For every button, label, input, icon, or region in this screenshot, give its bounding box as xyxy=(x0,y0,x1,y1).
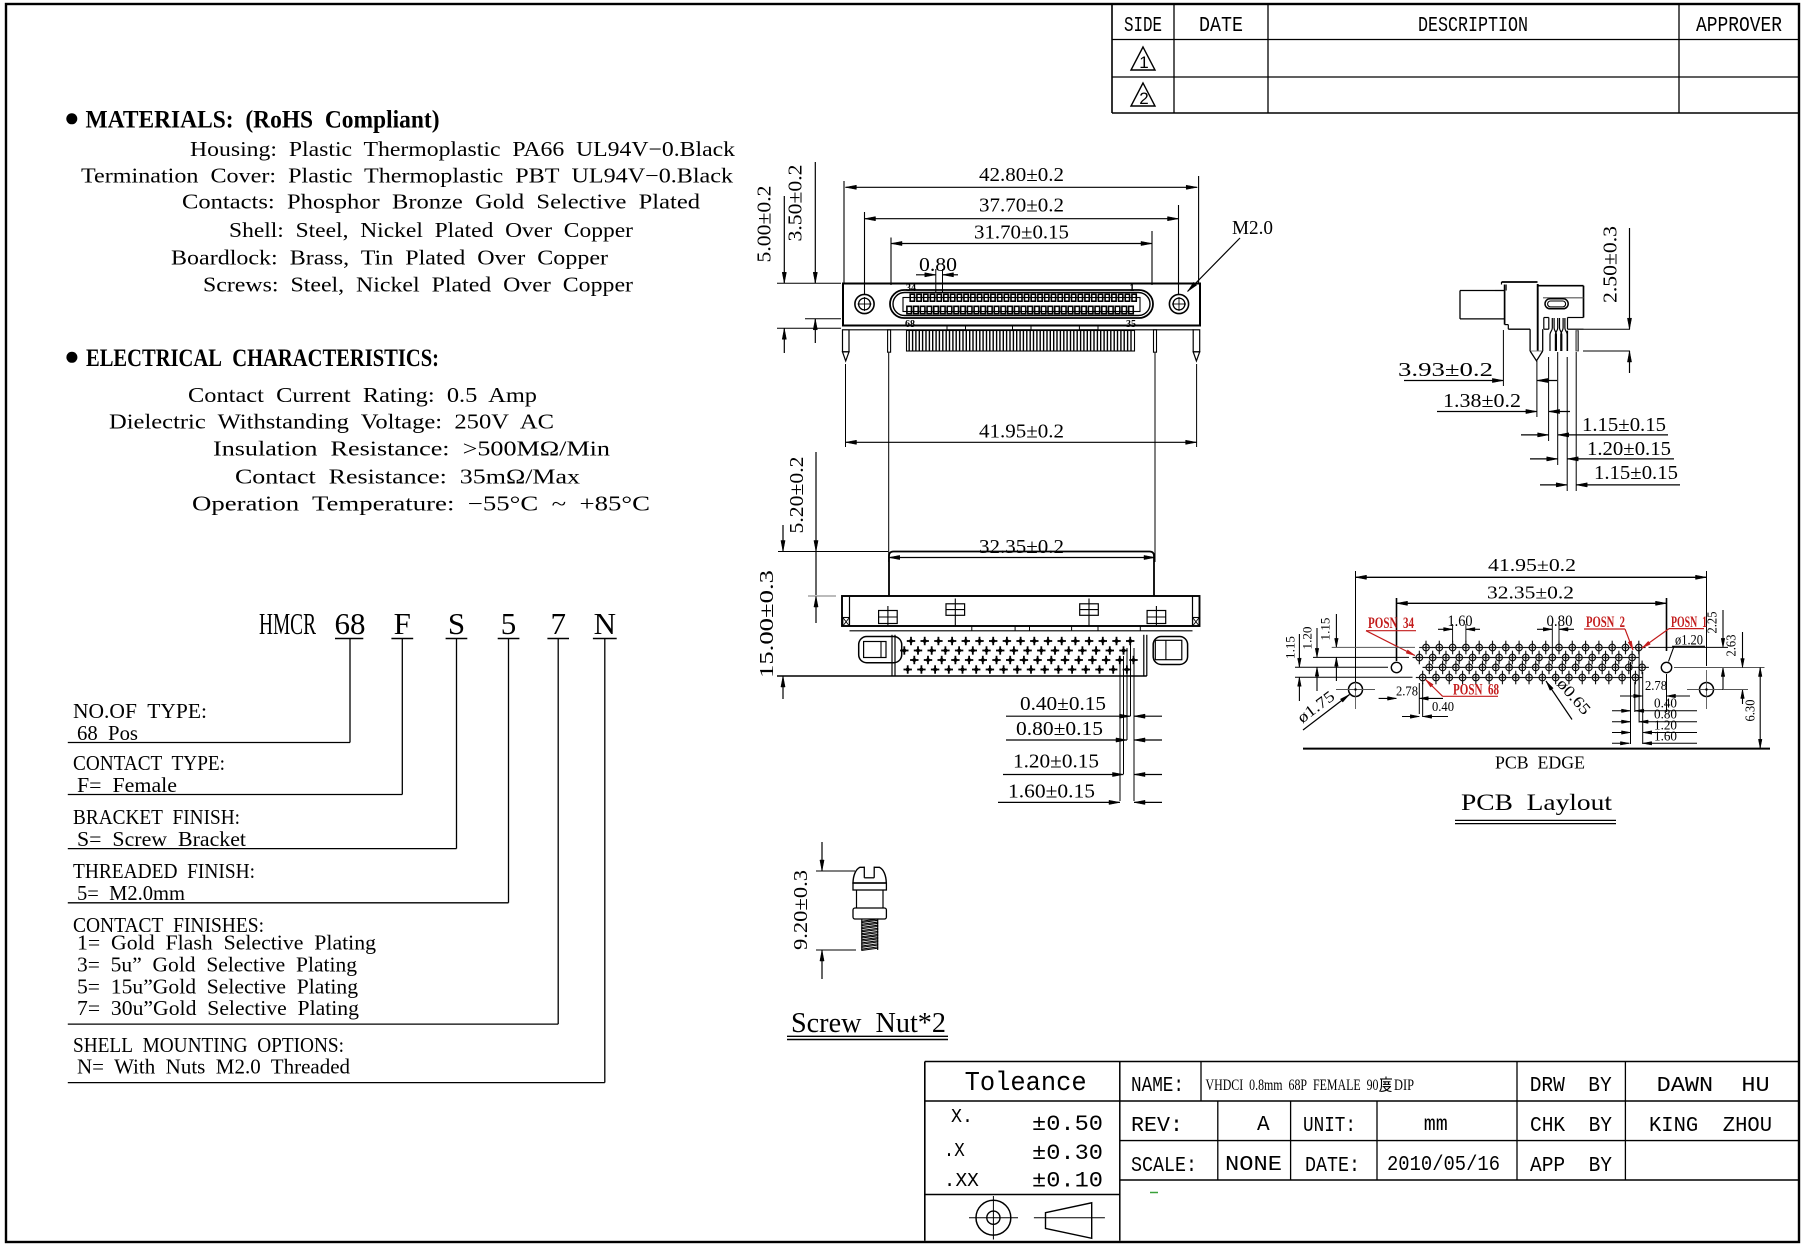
front view witness lines left xyxy=(777,282,841,284)
code 68 underline and leader xyxy=(335,638,363,640)
svg-text:7: 7 xyxy=(550,606,566,641)
svg-text:REV:: REV: xyxy=(1131,1115,1183,1138)
svg-text:1= Gold Flash Selective Pl: 1= Gold Flash Selective Plating xyxy=(77,931,377,955)
side view mating snout xyxy=(1495,290,1505,292)
svg-text:Screws: Steel, Nickel Plate: Screws: Steel, Nickel Plated Over Copper xyxy=(203,273,633,297)
svg-text:32.35±0.2: 32.35±0.2 xyxy=(979,536,1064,558)
svg-text:BRACKET FINISH:: BRACKET FINISH: xyxy=(73,805,240,829)
small green mark xyxy=(1150,1192,1158,1194)
side view under-body supports xyxy=(1544,317,1549,319)
svg-text:5= 15u”Gold Selective Plati: 5= 15u”Gold Selective Plating xyxy=(77,975,359,999)
middle view pin extension lines xyxy=(1119,660,1121,801)
revision triangle 2 xyxy=(1131,83,1155,106)
pcb edge line xyxy=(1303,748,1770,750)
svg-text:DIP: DIP xyxy=(1394,1077,1414,1094)
svg-text:2010/05/16: 2010/05/16 xyxy=(1387,1154,1500,1177)
screw nut drawing xyxy=(853,867,886,883)
svg-text:2.78: 2.78 xyxy=(1645,679,1667,694)
middle view pin field (68 pins) xyxy=(900,637,1138,674)
svg-text:68: 68 xyxy=(905,319,915,330)
front view contact pins row 1 (34 squares) xyxy=(910,294,1136,301)
svg-text:9.20±0.3: 9.20±0.3 xyxy=(790,870,812,950)
side view straight pin gray xyxy=(1576,331,1579,351)
svg-text:±0.30: ±0.30 xyxy=(1032,1141,1103,1166)
svg-text:CONTACT TYPE:: CONTACT TYPE: xyxy=(73,751,225,775)
svg-text:68: 68 xyxy=(335,606,366,641)
svg-text:2.50±0.3: 2.50±0.3 xyxy=(1600,226,1622,303)
svg-text:CHK BY: CHK BY xyxy=(1530,1115,1612,1138)
svg-text:Screw Nut*2: Screw Nut*2 xyxy=(791,1008,946,1039)
svg-text:HMCR: HMCR xyxy=(259,606,316,641)
svg-text:THREADED FINISH:: THREADED FINISH: xyxy=(73,859,255,883)
svg-text:.X: .X xyxy=(944,1140,966,1162)
hand-drawn CJK glyph du (degree) xyxy=(1380,1077,1393,1092)
svg-text:41.95±0.2: 41.95±0.2 xyxy=(1488,555,1576,575)
front view right screw hole xyxy=(1169,294,1188,313)
svg-text:Operation Temperature: −55°C: Operation Temperature: −55°C ~ +85°C xyxy=(192,492,650,516)
svg-text:1: 1 xyxy=(1130,283,1135,294)
svg-text:PCB EDGE: PCB EDGE xyxy=(1495,753,1585,773)
revision table xyxy=(1111,4,1113,113)
front view D-slot outer xyxy=(890,290,1153,318)
side view body xyxy=(1539,285,1584,287)
svg-text:3.93±0.2: 3.93±0.2 xyxy=(1398,359,1493,381)
svg-text:N= With Nuts M2.0 Threaded: N= With Nuts M2.0 Threaded xyxy=(77,1055,350,1079)
dimension 32.35±0.2 witness lines xyxy=(888,353,890,562)
code F underline and leader xyxy=(391,638,413,640)
svg-text:42.80±0.2: 42.80±0.2 xyxy=(979,164,1064,186)
svg-text:1.60: 1.60 xyxy=(1448,613,1473,630)
front view right thin pin xyxy=(1154,330,1157,352)
svg-text:NO.OF TYPE:: NO.OF TYPE: xyxy=(73,699,207,723)
svg-text:15.00±0.3: 15.00±0.3 xyxy=(756,570,778,678)
front view right boardlock pin xyxy=(1193,330,1200,352)
svg-text:KING ZHOU: KING ZHOU xyxy=(1649,1115,1772,1138)
svg-text:±0.50: ±0.50 xyxy=(1032,1112,1103,1137)
front view left screw hole xyxy=(855,294,874,313)
svg-text:0.40±0.15: 0.40±0.15 xyxy=(1020,693,1106,715)
svg-text:MATERIALS: (RoHS Compliant): MATERIALS: (RoHS Compliant) xyxy=(86,107,440,134)
front view left thin pin xyxy=(888,330,891,352)
svg-text:DRW BY: DRW BY xyxy=(1530,1075,1612,1098)
svg-text:UNIT:: UNIT: xyxy=(1303,1115,1356,1138)
middle view pin block xyxy=(894,635,896,676)
svg-text:Insulation Resistance: >500M: Insulation Resistance: >500MΩ/Min xyxy=(213,437,611,461)
front view insert rectangle xyxy=(903,298,1140,312)
third angle projection symbol cone xyxy=(1046,1203,1092,1239)
svg-text:X.: X. xyxy=(951,1106,973,1128)
svg-text:APP BY: APP BY xyxy=(1530,1155,1612,1178)
svg-text:F: F xyxy=(394,606,411,641)
dimension 41.95±0.2 witness lines xyxy=(845,364,847,447)
svg-text:Contact Current Rating: 0.5: Contact Current Rating: 0.5 Amp xyxy=(188,383,537,407)
front view contact pins row 2 (34 squares) xyxy=(907,306,1133,313)
title block frame xyxy=(925,1061,1799,1063)
middle view bottom strip with tabs xyxy=(850,630,1193,632)
svg-text:SIDE: SIDE xyxy=(1124,15,1162,38)
middle view right X-box xyxy=(1193,618,1200,627)
pcb right hole 1.20 xyxy=(1661,662,1671,672)
middle view flange xyxy=(842,596,1200,626)
side view oval slot outer xyxy=(1545,299,1568,309)
svg-text:Shell: Steel, Nickel Plated: Shell: Steel, Nickel Plated Over Copper xyxy=(229,218,633,242)
svg-text:1.60: 1.60 xyxy=(1654,729,1677,744)
revision triangle 1 xyxy=(1131,47,1155,70)
side view boardlock pin with tip xyxy=(1529,329,1531,351)
svg-text:S= Screw Bracket: S= Screw Bracket xyxy=(77,827,246,851)
svg-text:Boardlock: Brass, Tin Plate: Boardlock: Brass, Tin Plated Over Copper xyxy=(171,246,608,270)
middle view left boss xyxy=(859,637,902,663)
svg-text:5= M2.0mm: 5= M2.0mm xyxy=(77,881,185,905)
svg-text:1.38±0.2: 1.38±0.2 xyxy=(1443,390,1521,412)
svg-text:6.30: 6.30 xyxy=(1744,700,1759,722)
side view wavy contact legs xyxy=(1550,318,1552,351)
svg-text:F= Female: F= Female xyxy=(77,773,177,797)
materials section xyxy=(66,113,77,124)
svg-text:Toleance: Toleance xyxy=(965,1069,1087,1099)
code N underline and leader xyxy=(593,638,617,640)
svg-text:68 Pos: 68 Pos xyxy=(77,721,138,745)
side view bracket plate xyxy=(1502,281,1538,283)
middle view right boss xyxy=(1153,637,1187,665)
svg-text:DATE:: DATE: xyxy=(1305,1155,1360,1178)
side view dimension witness verticals xyxy=(1502,330,1504,386)
svg-text:5.00±0.2: 5.00±0.2 xyxy=(754,186,776,263)
front view hatched pin block xyxy=(907,331,1135,352)
svg-text:1: 1 xyxy=(1139,53,1148,72)
svg-text:3.50±0.2: 3.50±0.2 xyxy=(785,165,807,242)
side view straight pin black xyxy=(1566,331,1568,351)
svg-text:7= 30u”Gold Selective Plati: 7= 30u”Gold Selective Plating xyxy=(77,996,360,1020)
pcb left mount hole 1.75 xyxy=(1349,683,1363,697)
pcb right mount hole 1.75 xyxy=(1700,683,1714,697)
svg-text:DESCRIPTION: DESCRIPTION xyxy=(1418,15,1528,38)
svg-text:mm: mm xyxy=(1424,1114,1448,1137)
svg-text:1.20±0.15: 1.20±0.15 xyxy=(1587,438,1671,460)
screw nut threads xyxy=(862,919,878,950)
svg-text:NAME:: NAME: xyxy=(1131,1075,1184,1098)
svg-text:±0.10: ±0.10 xyxy=(1032,1169,1103,1194)
svg-text:.XX: .XX xyxy=(944,1170,980,1192)
svg-text:0.40: 0.40 xyxy=(1432,700,1454,715)
svg-text:N: N xyxy=(594,606,616,641)
front view D-slot inner xyxy=(893,293,1150,316)
code S underline and leader xyxy=(446,638,468,640)
svg-text:1.20±0.15: 1.20±0.15 xyxy=(1013,751,1099,773)
svg-text:A: A xyxy=(1257,1114,1270,1137)
svg-text:SCALE:: SCALE: xyxy=(1131,1155,1197,1178)
side view oval slot inner xyxy=(1548,301,1566,307)
svg-text:VHDCI 0.8mm 68P FEMALE 90: VHDCI 0.8mm 68P FEMALE 90 xyxy=(1206,1077,1379,1094)
pcb layout pin grid (68 holes) xyxy=(1413,641,1649,685)
svg-text:1.15±0.15: 1.15±0.15 xyxy=(1582,414,1666,436)
svg-text:1.20: 1.20 xyxy=(1300,627,1315,650)
svg-text:2.78: 2.78 xyxy=(1396,685,1418,700)
pcb right witness verticals xyxy=(1630,662,1632,744)
svg-text:1.60±0.15: 1.60±0.15 xyxy=(1008,781,1095,803)
svg-text:35: 35 xyxy=(1126,319,1136,330)
front view left boardlock pin xyxy=(843,330,850,352)
svg-text:Contacts: Phosphor Bronze G: Contacts: Phosphor Bronze Gold Selective… xyxy=(182,190,701,214)
front view connector body xyxy=(843,284,1200,326)
code 5 underline and leader xyxy=(498,638,520,640)
svg-text:3= 5u” Gold Selective Plat: 3= 5u” Gold Selective Plating xyxy=(77,953,358,977)
svg-text:5: 5 xyxy=(501,606,517,641)
third angle projection symbol circle xyxy=(976,1200,1011,1235)
electrical characteristics section xyxy=(66,352,77,363)
svg-text:1.15: 1.15 xyxy=(1318,618,1333,641)
svg-text:DAWN HU: DAWN HU xyxy=(1657,1075,1770,1098)
svg-text:0.80±0.15: 0.80±0.15 xyxy=(1016,718,1103,740)
svg-text:Housing: Plastic Thermoplast: Housing: Plastic Thermoplastic PA66 UL94… xyxy=(190,137,736,161)
svg-text:1.15±0.15: 1.15±0.15 xyxy=(1594,462,1678,484)
svg-text:Dielectric Withstanding Volt: Dielectric Withstanding Voltage: 250V AC xyxy=(109,410,554,434)
svg-text:2.25: 2.25 xyxy=(1706,612,1721,634)
svg-text:32.35±0.2: 32.35±0.2 xyxy=(1487,583,1574,603)
svg-text:S: S xyxy=(448,606,465,641)
svg-text:ELECTRICAL CHARACTERISTICS:: ELECTRICAL CHARACTERISTICS: xyxy=(86,345,439,372)
pcb row witness lines left xyxy=(1332,646,1415,648)
pcb left hole 1.20 xyxy=(1391,662,1401,672)
middle view hood xyxy=(889,552,1154,597)
svg-text:34: 34 xyxy=(906,283,916,294)
front view flange strip below body xyxy=(850,329,1194,331)
svg-text:5.20±0.2: 5.20±0.2 xyxy=(786,457,808,534)
svg-text:DATE: DATE xyxy=(1199,15,1243,38)
svg-text:PCB Laylout: PCB Laylout xyxy=(1461,790,1613,815)
svg-text:31.70±0.15: 31.70±0.15 xyxy=(974,222,1069,244)
svg-text:Termination Cover: Plastic: Termination Cover: Plastic Thermoplastic… xyxy=(81,163,734,187)
svg-text:M2.0: M2.0 xyxy=(1232,217,1273,239)
middle view boardlock screw symbols xyxy=(879,611,898,624)
svg-text:Contact Resistance: 35mΩ/Max: Contact Resistance: 35mΩ/Max xyxy=(235,465,581,489)
svg-text:0.80: 0.80 xyxy=(1547,613,1573,630)
svg-text:2: 2 xyxy=(1139,89,1148,108)
svg-text:SHELL MOUNTING OPTIONS:: SHELL MOUNTING OPTIONS: xyxy=(73,1033,344,1057)
svg-text:NONE: NONE xyxy=(1225,1154,1282,1177)
svg-text:1.15: 1.15 xyxy=(1283,636,1298,659)
svg-text:2.63: 2.63 xyxy=(1725,635,1740,657)
svg-text:POSN 34: POSN 34 xyxy=(1368,615,1414,632)
svg-text:37.70±0.2: 37.70±0.2 xyxy=(979,195,1064,217)
svg-text:APPROVER: APPROVER xyxy=(1696,15,1782,38)
middle view left X-box xyxy=(843,618,850,627)
svg-text:41.95±0.2: 41.95±0.2 xyxy=(979,421,1064,443)
code 7 underline and leader xyxy=(547,638,569,640)
